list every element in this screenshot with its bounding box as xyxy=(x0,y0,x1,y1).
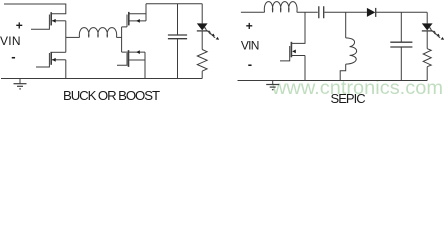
M2 source stub xyxy=(52,59,66,61)
wire bottom rail left xyxy=(1,78,202,80)
M4 channel bar xyxy=(128,50,130,67)
capacitor C1 left plates xyxy=(168,35,187,39)
wire LED to resistor left xyxy=(201,31,203,50)
wire output corner to LED xyxy=(426,12,428,23)
M4 drop to ground xyxy=(144,52,146,78)
light arrows SEPIC LED xyxy=(429,28,444,40)
wire node A to inductor xyxy=(66,36,80,38)
M3 source stub xyxy=(130,20,147,22)
Q1 source drop xyxy=(304,56,306,81)
M3 channel bar xyxy=(128,12,130,26)
ground SEPIC xyxy=(266,81,279,90)
svg-text:VIN: VIN xyxy=(241,39,260,53)
transistor M2 xyxy=(36,52,66,79)
transistor Q1 SEPIC xyxy=(280,12,305,80)
svg-text:VIN: VIN xyxy=(0,34,21,48)
capacitor C2 SEPIC riser xyxy=(400,12,402,42)
LED D2 SEPIC xyxy=(422,23,433,31)
D2 triangle xyxy=(422,23,433,30)
wire resistor to rail left xyxy=(201,71,203,78)
wire node A vertical xyxy=(65,21,67,53)
capacitor C2 SEPIC plates xyxy=(390,42,412,47)
M4 drain arrow xyxy=(136,50,140,54)
M2 gate lead xyxy=(36,53,49,67)
wire cap to diode xyxy=(324,11,367,13)
Q1 body arrow xyxy=(292,50,296,54)
Q1 drain riser xyxy=(292,12,305,43)
inductor L2 SEPIC riser xyxy=(345,12,347,38)
light arrows left LED xyxy=(204,28,219,40)
wire inductor to node B xyxy=(117,36,122,38)
M1 source stub xyxy=(52,20,66,22)
wire node B to M3 gate xyxy=(122,26,127,28)
svg-text:SEPIC: SEPIC xyxy=(331,91,366,105)
wire L1 to coupling cap xyxy=(297,11,318,13)
Q1 channel bar xyxy=(290,42,292,58)
svg-text:-: - xyxy=(248,57,252,72)
M2 source drop xyxy=(65,60,67,79)
svg-text:-: - xyxy=(11,49,15,64)
wire top input rail left circuit xyxy=(4,4,66,14)
D1 triangle xyxy=(197,23,208,30)
M4 drain stub xyxy=(122,51,145,53)
resistor R1 left xyxy=(197,50,207,72)
ground left xyxy=(14,79,27,89)
M4 gate lead xyxy=(117,53,127,65)
capacitor C1 SEPIC plates xyxy=(319,6,324,18)
M2 channel bar xyxy=(50,52,52,65)
transistor M4 xyxy=(117,50,145,78)
wire SEPIC ground rail xyxy=(238,80,428,82)
wire node B vertical xyxy=(121,27,123,52)
resistor R1 SEPIC xyxy=(423,49,431,67)
svg-text:+: + xyxy=(246,19,253,33)
inductor L1 SEPIC xyxy=(264,2,297,13)
LED branch left riser xyxy=(201,4,203,24)
wire diode to output xyxy=(376,11,428,13)
wire M3 riser to output rail xyxy=(145,4,147,21)
wire output top rail xyxy=(146,3,202,5)
capacitor C2 SEPIC drop xyxy=(400,47,402,81)
wire resistor to rail SEPIC xyxy=(426,67,428,81)
M1 gate lead xyxy=(31,15,49,30)
LED D1 left xyxy=(197,23,208,31)
Q1 source stub xyxy=(292,55,305,57)
transistor M1 xyxy=(31,12,66,29)
transistor M3 xyxy=(127,12,146,27)
M2 drain stub xyxy=(52,51,66,53)
M3 source arrow xyxy=(136,19,140,23)
inductor L2 SEPIC xyxy=(346,38,357,64)
svg-text:+: + xyxy=(16,19,23,33)
capacitor C1 left drop xyxy=(177,39,179,79)
wire L2 bottom jog xyxy=(340,64,346,80)
M2 source arrow xyxy=(52,58,56,62)
svg-text:BUCK OR BOOST: BUCK OR BOOST xyxy=(63,88,160,103)
capacitor C1 left riser xyxy=(177,4,179,35)
wire SEPIC input xyxy=(241,11,265,13)
diode D1 SEPIC xyxy=(367,8,376,17)
D1 cathode bar xyxy=(375,8,377,17)
D2 cathode bar xyxy=(422,30,433,32)
M1 channel bar xyxy=(50,12,52,25)
inductor L left circuit xyxy=(79,28,116,38)
M1 source arrow xyxy=(52,19,56,23)
wire LED to resistor SEPIC xyxy=(426,31,428,49)
M3 gate bar xyxy=(126,15,128,27)
M3 drain stub xyxy=(130,13,147,15)
D1 cathode bar xyxy=(197,30,208,32)
Q1 gate lead xyxy=(280,46,290,61)
M4 source stub xyxy=(129,59,145,61)
